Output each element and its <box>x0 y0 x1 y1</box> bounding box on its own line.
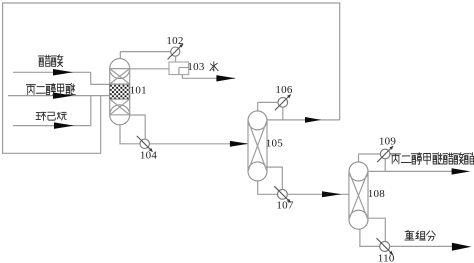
svg-text:108: 108 <box>368 188 386 200</box>
svg-text:102: 102 <box>166 35 183 47</box>
svg-text:106: 106 <box>275 84 293 96</box>
svg-text:103: 103 <box>187 61 205 73</box>
svg-text:110: 110 <box>378 252 395 263</box>
svg-text:109: 109 <box>379 135 397 147</box>
svg-text:107: 107 <box>276 199 294 211</box>
svg-text:105: 105 <box>266 137 284 149</box>
svg-text:101: 101 <box>130 85 147 97</box>
svg-text:104: 104 <box>140 150 158 162</box>
